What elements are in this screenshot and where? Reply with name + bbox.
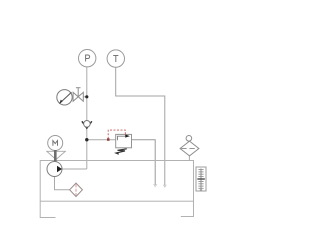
wire: needle valve to riser link: [83, 96, 87, 98]
fluid level gauge: [196, 167, 206, 191]
wire: P gauge riser (vertical main pressure line): [86, 67, 88, 169]
gauge isolator needle valve: [73, 88, 83, 102]
relief valve body: [116, 134, 132, 147]
node: junction dot at riser / gauge isolator valve: [85, 95, 88, 98]
check valve (ball and seat): [82, 121, 92, 129]
tank: left foot corner: [40, 201, 55, 217]
air breather (filler cap with filter): [180, 136, 199, 156]
wire: T sensor line (down, across, down into tank): [116, 68, 165, 186]
coupling between motor and pump: [47, 150, 66, 162]
relief valve pilot line (dashed): [107, 130, 125, 141]
pump (fixed displacement): [47, 162, 62, 177]
pressure gauge (dial with needle): [57, 90, 72, 105]
wire: breather stem: [188, 156, 190, 161]
pressure gauge P: [79, 50, 96, 67]
node: T line pipe outlet arrow: [163, 185, 166, 187]
suction strainer: [70, 183, 83, 196]
tank: right foot corner: [181, 201, 194, 216]
electric motor M: [48, 136, 63, 151]
tank: reservoir rectangle outline: [40, 161, 193, 202]
temperature gauge T: [107, 50, 124, 67]
relief valve spring: [116, 149, 127, 154]
wire: pump suction line to strainer: [55, 177, 70, 190]
node: junction dot at riser / relief branch: [85, 138, 88, 141]
wire: pump discharge horizontal to riser: [62, 168, 87, 170]
wire: relief valve branch line from riser to valve: [87, 139, 116, 141]
node: relief return pipe outlet arrow: [154, 184, 157, 186]
wire: relief valve return line to tank: [132, 140, 156, 185]
